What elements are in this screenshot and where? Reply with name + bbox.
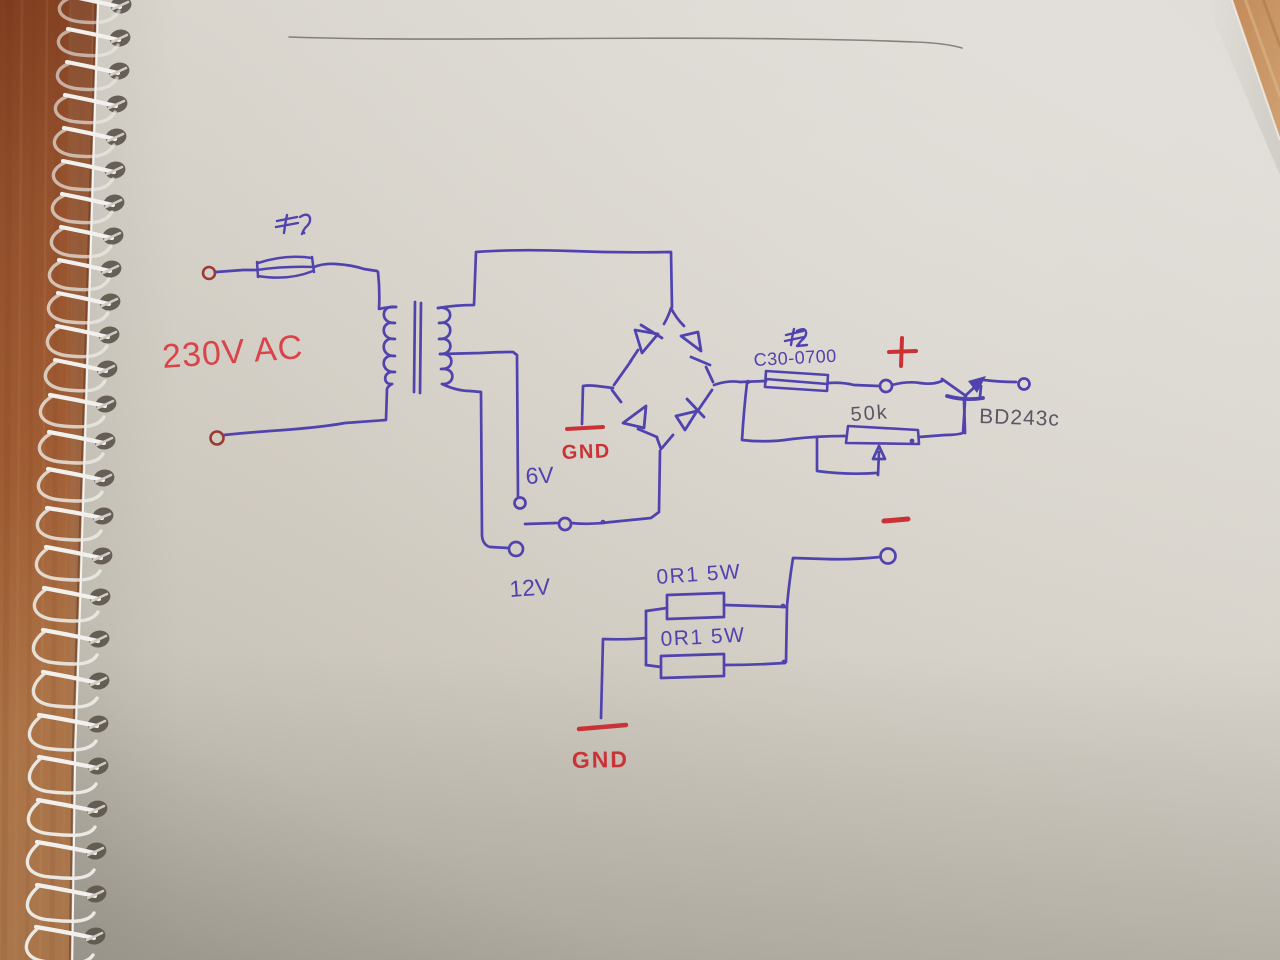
switch blade wire from 12V row [525, 523, 557, 524]
svg-text:GND: GND [572, 746, 630, 773]
svg-text:50k: 50k [850, 401, 890, 426]
fuse F2 [765, 371, 828, 391]
svg-text:12V: 12V [509, 573, 552, 602]
wire - terminal to resistor bus [786, 557, 880, 662]
diode D2 (bridge top-right) [681, 332, 713, 382]
wire switch to bridge bottom (node AC2) [571, 451, 660, 524]
wire RV1 right terminal to Q1 collector [919, 402, 965, 437]
junction at RV1 right [910, 439, 915, 444]
node A (open junction circle) [880, 380, 892, 392]
junction node B (pot branch) [746, 380, 750, 384]
wire R2 right lead to bus [724, 663, 785, 665]
transformer T1 secondary winding [438, 308, 452, 384]
wire bridge left corner to ground GND1 [582, 386, 613, 425]
potentiometer RV1 body [846, 426, 919, 444]
terminal + output [1019, 379, 1030, 390]
terminal - output [881, 549, 896, 564]
transformer T1 core [414, 302, 415, 392]
diode D1 (bridge top-left) [614, 325, 662, 385]
resistor R2 body (0R1 5W bottom) [661, 654, 724, 678]
switch contact terminal [559, 518, 571, 530]
wire fuse F1 to transformer T1 primary top [314, 264, 396, 309]
diode D3 (bridge bottom-left) [612, 390, 661, 449]
svg-text:0R1 5W: 0R1 5W [660, 624, 746, 651]
ground GND2 bar [579, 725, 626, 729]
resistor R1 body (0R1 5W top) [667, 593, 724, 619]
label fuse F2 "F2" [785, 329, 807, 346]
left resistor bus [645, 611, 648, 665]
wire R1 left lead to bus [646, 608, 667, 611]
transistor Q1 BD243C [942, 376, 986, 433]
wire node A to transistor Q1 [892, 381, 942, 385]
diode D4 (bridge bottom-right) [662, 390, 712, 448]
terminal 12V tap [509, 542, 523, 556]
junction R1 right [781, 604, 786, 609]
wire RV1 wiper return to left terminal [817, 439, 876, 474]
wooden desk, left strip [0, 0, 150, 960]
spiral binding rings [109, 0, 133, 15]
junction R2 right [782, 660, 787, 665]
wooden desk, top-right corner [1225, 0, 1280, 148]
wire secondary top to bridge rectifier (node AC1) [438, 250, 672, 308]
terminal J2 (AC neutral input) [211, 432, 224, 445]
svg-text:BD243c: BD243c [979, 405, 1060, 431]
wire secondary center tap to 6V terminal [440, 352, 518, 497]
junction on switch wire [601, 520, 606, 525]
wire R1 right lead to bus [724, 605, 786, 607]
wire resistor bus to ground GND2 [601, 638, 646, 718]
transformer T1 primary winding [384, 307, 396, 384]
ground GND1 bar [567, 427, 603, 429]
fuse F1 (input) [257, 257, 314, 278]
wire node B down to potentiometer RV1 left [742, 383, 845, 441]
terminal 6V tap [515, 498, 526, 509]
svg-text:GND: GND [561, 440, 611, 464]
wire bridge output (right corner) to fuse F2 [714, 381, 766, 385]
wire J1 to input fuse [216, 270, 256, 272]
pencil rule line at top [289, 37, 962, 48]
label - (negative output) [884, 519, 908, 521]
wire R2 left lead to bus [646, 665, 661, 667]
wire secondary bottom to 12V terminal [442, 384, 508, 548]
wire Q1 emitter to + output terminal [984, 380, 1016, 382]
label fuse F1 value "F2?" [276, 215, 310, 235]
wire T1 primary bottom to terminal J2 [224, 384, 392, 435]
RV1 wiper arrow [873, 446, 885, 475]
terminal J1 (AC live input) [203, 267, 215, 279]
wire fuse F2 to node A [828, 383, 879, 386]
label + (positive output) [889, 338, 916, 366]
svg-text:6V: 6V [525, 462, 555, 489]
bridge rectifier: node top corner flare [664, 308, 684, 326]
